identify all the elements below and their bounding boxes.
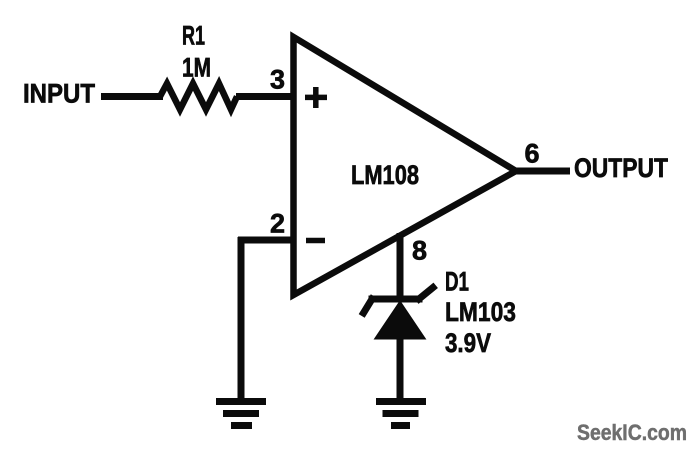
wire pin 2 horizontal xyxy=(238,237,292,244)
wire pin 8 down to diode xyxy=(397,233,404,300)
diode D1 anode triangle xyxy=(375,301,426,339)
svg-text:3.9V: 3.9V xyxy=(445,328,491,358)
svg-text:INPUT: INPUT xyxy=(23,79,95,109)
diode D1 zener cathode bar xyxy=(364,288,434,314)
svg-text:6: 6 xyxy=(525,139,540,169)
svg-text:SeekIC.com: SeekIC.com xyxy=(577,420,687,445)
wire pin 2 down to ground xyxy=(238,237,245,399)
svg-text:R1: R1 xyxy=(182,21,205,51)
svg-text:3: 3 xyxy=(270,65,285,95)
ground symbol right xyxy=(376,402,426,426)
resistor R1 1M xyxy=(160,84,237,110)
svg-text:OUTPUT: OUTPUT xyxy=(574,153,668,183)
svg-text:LM103: LM103 xyxy=(445,297,516,327)
wire diode to ground xyxy=(397,338,404,399)
wire input to resistor xyxy=(101,93,163,100)
svg-text:LM108: LM108 xyxy=(351,160,419,190)
svg-text:2: 2 xyxy=(270,209,285,239)
minus sign inverting input xyxy=(306,238,325,244)
wire resistor to pin 3 xyxy=(236,93,292,100)
svg-text:1M: 1M xyxy=(182,53,211,83)
svg-text:8: 8 xyxy=(412,236,427,266)
plus sign noninverting input xyxy=(305,87,327,108)
svg-text:D1: D1 xyxy=(445,267,469,297)
ground symbol left xyxy=(216,402,266,426)
wire output xyxy=(514,168,570,175)
op-amp U1 LM108 triangle xyxy=(294,37,517,295)
